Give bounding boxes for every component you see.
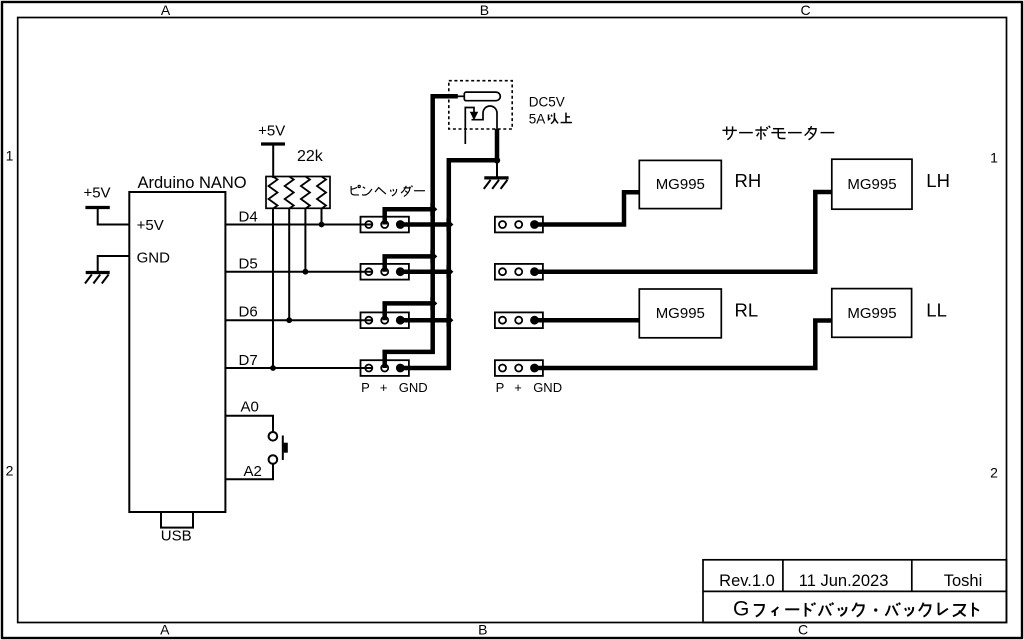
junction on D5 — [303, 269, 309, 275]
svg-text:+: + — [380, 380, 388, 395]
svg-text:A: A — [161, 2, 171, 18]
svg-text:D5: D5 — [239, 255, 258, 272]
svg-text:MG995: MG995 — [847, 305, 896, 322]
wire D4 to pin header — [225, 224, 371, 226]
wire A2 to switch — [225, 464, 273, 479]
wire jack pin stub — [455, 95, 464, 97]
svg-text:Arduino NANO: Arduino NANO — [138, 174, 247, 192]
junction on D6 — [286, 317, 292, 323]
wire J2 gnd to GND bus — [400, 269, 447, 274]
svg-text:1: 1 — [6, 148, 14, 164]
wire J8 to servo RL — [536, 318, 639, 323]
wire D6 to pin header — [225, 319, 371, 321]
svg-text:D7: D7 — [239, 352, 258, 369]
DC jack switch contact with arrow — [465, 108, 474, 145]
svg-text:22k: 22k — [297, 148, 324, 165]
connector J4 (pin header row 4) — [361, 360, 409, 376]
wire D7 to pin header — [225, 367, 371, 369]
wire D5 to pin header — [225, 271, 371, 273]
svg-text:D6: D6 — [239, 304, 258, 321]
servo M1 MG995 RH — [639, 160, 721, 208]
DC jack center pin — [464, 92, 500, 101]
svg-text:1: 1 — [990, 150, 998, 166]
junction on D4 — [319, 222, 325, 228]
servo M3 MG995 RL — [639, 289, 721, 338]
DC jack sleeve contact — [472, 106, 498, 129]
wire J1 gnd to GND bus — [400, 222, 447, 227]
svg-text:A: A — [160, 622, 170, 638]
junction on D7 — [270, 365, 276, 371]
svg-text:C: C — [800, 2, 810, 18]
svg-text:LL: LL — [926, 300, 947, 321]
resistor RN1-b — [285, 177, 294, 209]
svg-text:G: G — [733, 598, 749, 621]
svg-text:USB: USB — [161, 528, 192, 545]
svg-text:A0: A0 — [241, 399, 259, 416]
svg-text:RH: RH — [735, 170, 762, 191]
svg-text:DC5V: DC5V — [529, 94, 565, 109]
connector J6 (servo row 1) — [495, 217, 543, 233]
connector J8 (servo row 3) — [495, 312, 543, 328]
svg-text:MG995: MG995 — [656, 305, 705, 322]
MCU U1 Arduino NANO — [129, 192, 225, 512]
wire J6 to servo RH — [536, 192, 639, 224]
svg-text:B: B — [478, 622, 487, 638]
svg-text:+5V: +5V — [258, 123, 285, 140]
wire Arduino GND pin to ground — [98, 256, 130, 273]
svg-text:GND: GND — [399, 380, 428, 395]
svg-text:+5V: +5V — [83, 185, 110, 202]
svg-text:MG995: MG995 — [847, 176, 896, 193]
wire A0 to switch — [225, 416, 273, 432]
svg-text:MG995: MG995 — [656, 176, 705, 193]
pushbutton SW1 — [269, 432, 283, 464]
wire to jack ground — [496, 160, 498, 178]
wire J9 to servo LL — [536, 321, 832, 369]
wire J7 to servo LH — [536, 192, 832, 272]
wire +5V flag into resistor network — [272, 144, 274, 178]
svg-text:A2: A2 — [244, 463, 262, 480]
svg-text:LH: LH — [926, 170, 950, 191]
+5V bus from DC jack pin to J4 plus pin — [385, 96, 458, 368]
resistor RN1-c — [301, 177, 310, 209]
svg-text:C: C — [798, 622, 808, 638]
junction at GND bus and jack ground — [494, 157, 500, 163]
servo M4 MG995 LL — [832, 289, 912, 338]
wire J3 gnd to GND bus — [400, 318, 447, 323]
drawing title G feedback backrest — [733, 598, 979, 621]
svg-text:B: B — [480, 2, 489, 18]
svg-text:GND: GND — [137, 249, 171, 266]
svg-text:+: + — [514, 380, 522, 395]
svg-text:D4: D4 — [239, 208, 258, 225]
label pin header — [351, 185, 425, 196]
wire J2 plus to +5V bus — [385, 256, 431, 271]
svg-text:5A: 5A — [529, 112, 546, 127]
svg-text:+5V: +5V — [137, 217, 164, 234]
wire RN1-c to D5 — [304, 208, 306, 271]
connector J9 (servo row 4) — [495, 360, 543, 376]
wire J3 plus to +5V bus — [385, 303, 431, 320]
svg-text:P: P — [496, 380, 505, 395]
wire RN1-d to D4 — [321, 208, 323, 224]
svg-text:2: 2 — [6, 463, 14, 479]
label servo motor — [722, 126, 834, 140]
DC jack J5 dashed enclosure — [449, 81, 512, 129]
title block — [703, 560, 1006, 623]
GND bus from DC jack sleeve to J4 gnd pin — [400, 129, 497, 368]
svg-text:Rev.1.0: Rev.1.0 — [719, 572, 775, 590]
svg-text:2: 2 — [990, 465, 998, 481]
USB connector of U1 — [161, 512, 193, 528]
svg-text:11 Jun.2023: 11 Jun.2023 — [799, 572, 889, 590]
svg-text:RL: RL — [735, 300, 759, 321]
connector J2 (pin header row 2) — [361, 264, 409, 280]
connector J7 (servo row 2) — [495, 264, 543, 280]
resistor RN1-d — [317, 177, 326, 209]
ground (DC jack) — [484, 178, 509, 189]
wire RN1-b to D6 — [288, 208, 290, 320]
wire RN1-a to D7 — [272, 208, 274, 368]
connector J1 (pin header row 1) — [361, 217, 409, 233]
servo M2 MG995 LH — [832, 159, 912, 209]
svg-text:P: P — [361, 380, 370, 395]
wire +5V flag to Arduino +5V pin — [98, 208, 130, 225]
wire J1 plus to +5V bus — [385, 209, 431, 224]
connector J3 (pin header row 3) — [361, 312, 409, 328]
ground (left) — [85, 273, 110, 284]
svg-text:Toshi: Toshi — [944, 572, 983, 590]
resistor RN1-a — [269, 177, 278, 209]
svg-text:GND: GND — [533, 380, 562, 395]
resistor network RN1 22k box — [266, 177, 330, 209]
